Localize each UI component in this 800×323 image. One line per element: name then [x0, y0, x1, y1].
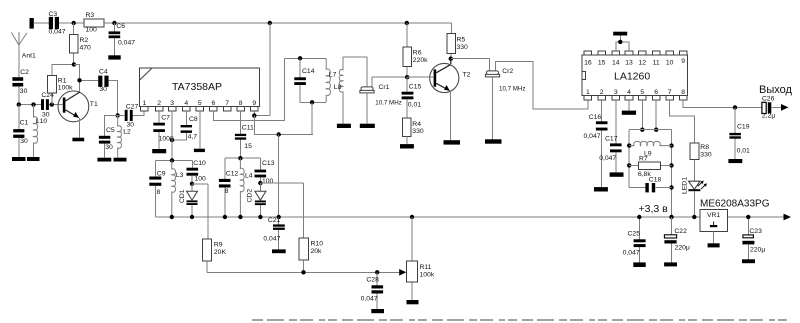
wire terminal to C3: [34, 22, 49, 24]
label Vyhod output: [759, 84, 792, 96]
arrow output: [781, 104, 789, 111]
junction dot tank bottom riser: [310, 100, 314, 104]
svg-text:30: 30: [99, 86, 107, 93]
svg-text:R11: R11: [420, 264, 432, 271]
crystal Cr2 10,7 MHz: [485, 68, 525, 139]
svg-text:16: 16: [584, 59, 592, 66]
node osc tank B top wire: [225, 157, 261, 159]
junction dot supply riser on pin9 wire: [277, 132, 281, 136]
junction dot R1/base: [50, 102, 54, 106]
node IF tank top wire: [285, 57, 327, 59]
ground of R4: [400, 144, 414, 148]
potentiometer R11 100k: [407, 217, 435, 300]
wire pin 6 to IF tank top: [213, 58, 284, 120]
svg-text:Cr1: Cr1: [379, 84, 390, 91]
svg-text:8: 8: [157, 189, 161, 196]
svg-text:C18: C18: [649, 177, 662, 184]
ground of C19: [728, 159, 742, 163]
svg-text:0,047: 0,047: [263, 235, 280, 242]
wire network right rail to +3.3V rail: [671, 130, 673, 217]
capacitor C13 100: [255, 158, 275, 185]
ground of VR1: [708, 243, 720, 247]
svg-text:5: 5: [640, 89, 644, 96]
wire pin 3 down to osc tank A: [171, 111, 173, 161]
svg-text:220μ: 220μ: [750, 247, 765, 254]
svg-text:0,047: 0,047: [623, 249, 640, 256]
capacitor C25 0,047: [623, 217, 646, 262]
wire quad network top and left rail: [629, 130, 671, 188]
svg-text:6: 6: [654, 89, 658, 96]
junction dots pins 5,6 on network top: [640, 128, 658, 132]
junction dot R6 on top rail: [405, 21, 409, 25]
ground of C5: [97, 158, 111, 162]
op-amp IC U1 TA7358AP body: [140, 68, 260, 107]
crystal Cr1 10,7 MHz: [360, 84, 402, 124]
svg-text:470: 470: [80, 45, 92, 52]
capacitor C10 100: [187, 160, 207, 184]
svg-text:30: 30: [42, 111, 50, 118]
svg-text:0,047: 0,047: [49, 29, 66, 36]
svg-text:T2: T2: [463, 72, 471, 79]
svg-text:C14: C14: [302, 68, 315, 75]
svg-text:2: 2: [600, 89, 604, 96]
svg-text:5: 5: [198, 100, 202, 107]
ground of Cr1: [360, 124, 375, 128]
resistor R4 330: [403, 118, 424, 144]
svg-text:4,7: 4,7: [188, 134, 198, 141]
ground of Cr2: [485, 139, 502, 143]
junction dot R10 bottom: [301, 270, 305, 274]
wire C26 to output arrow: [771, 106, 782, 108]
wire pins 14,13 to top ground: [616, 36, 629, 52]
svg-text:C5: C5: [106, 127, 115, 134]
label +3,3 v: [639, 203, 669, 215]
svg-text:3: 3: [614, 89, 618, 96]
ground of L8: [337, 124, 351, 128]
capacitor C5 30: [99, 115, 118, 157]
ground of C17: [610, 172, 624, 176]
inductor L8: [334, 57, 343, 124]
junction dot C11/L4 tank B: [238, 156, 242, 160]
wire C4 to C5/L2/C27 node: [109, 80, 118, 115]
cropped caption remnant: [252, 319, 788, 321]
svg-text:15: 15: [244, 143, 252, 150]
capacitor C6 0,047: [109, 23, 136, 55]
junction dot antenna/C1: [17, 102, 21, 106]
resistor R5 330: [447, 23, 468, 59]
svg-text:C19: C19: [737, 124, 750, 131]
svg-text:100: 100: [195, 175, 207, 182]
svg-text:+3,3 в: +3,3 в: [639, 203, 669, 215]
wire C2 to base node: [18, 87, 20, 105]
wire pin 9 to top rail riser: [254, 23, 269, 116]
capacitor C26 2,2u electrolytic: [762, 95, 775, 119]
svg-text:CD2: CD2: [246, 189, 253, 203]
junction dot T2 collector node: [449, 57, 453, 61]
resistor R7 6,8k: [629, 156, 671, 179]
svg-text:20k: 20k: [311, 248, 323, 255]
ground of C22: [664, 262, 677, 266]
svg-text:Ant1: Ant1: [22, 53, 36, 60]
junction dots network left rail: [627, 143, 631, 167]
ground of R11: [407, 300, 419, 304]
svg-text:R8: R8: [700, 144, 709, 151]
node osc tank A top wire: [156, 159, 193, 161]
svg-text:T1: T1: [90, 101, 98, 108]
inductor L3: [172, 160, 184, 217]
ground of C7: [152, 149, 166, 153]
resistor R8 330: [690, 143, 712, 159]
wire collector node to Cr2: [451, 59, 490, 71]
svg-text:R1: R1: [58, 77, 67, 84]
ground of pin 4: [622, 111, 636, 115]
svg-text:7: 7: [668, 89, 672, 96]
svg-text:C6: C6: [116, 23, 125, 30]
capacitor C2 30: [12, 69, 29, 95]
ground of C20: [371, 309, 384, 313]
transistor T2: [430, 59, 471, 141]
svg-text:100: 100: [262, 178, 274, 185]
junction dot L10: [31, 102, 35, 106]
svg-text:100k: 100k: [58, 85, 73, 92]
ground of pin 5: [194, 149, 205, 152]
svg-text:L10: L10: [36, 118, 48, 125]
capacitor C27 30: [118, 104, 145, 129]
svg-text:10,7 MHz: 10,7 MHz: [375, 99, 401, 106]
svg-text:TA7358AP: TA7358AP: [172, 81, 222, 93]
junction dot C10/CD1: [190, 182, 194, 186]
resistor R9 20K: [202, 239, 226, 272]
wire pin 7 to R8: [670, 100, 695, 143]
junction dot LED on rail: [692, 215, 696, 219]
ground of C21: [272, 249, 286, 253]
wiper arrow into R11: [399, 269, 406, 276]
svg-text:3: 3: [170, 100, 174, 107]
svg-text:C4: C4: [99, 68, 108, 75]
node IF tank bottom wire: [300, 101, 326, 103]
junction dot T2 base node: [405, 75, 409, 79]
svg-text:L3: L3: [176, 172, 184, 179]
svg-text:1: 1: [586, 89, 590, 96]
LA1260 bottom pin boxes and numbers 1-8: [584, 89, 687, 100]
svg-text:8: 8: [239, 100, 243, 107]
arrow end of +3.3V rail: [784, 214, 792, 221]
voltage regulator VR1: [700, 210, 728, 244]
svg-text:4: 4: [627, 89, 631, 96]
wire collector node to C4 branch: [74, 65, 98, 93]
svg-text:C11: C11: [242, 124, 254, 131]
svg-text:C9: C9: [157, 170, 166, 177]
wire tuning line R9 to R11 wiper: [207, 271, 400, 273]
transistor T1: [58, 91, 98, 138]
wire C24 to T1 base: [49, 104, 63, 106]
resistor R10 20k: [299, 238, 323, 272]
junction dot R2/top rail: [72, 21, 76, 25]
svg-text:0,01: 0,01: [408, 102, 421, 109]
svg-text:220k: 220k: [413, 57, 428, 64]
svg-text:0,047: 0,047: [599, 155, 616, 162]
junction dot C6: [112, 21, 116, 25]
capacitor C3 0,047: [49, 11, 66, 36]
ground of T1 emitter: [72, 138, 84, 142]
wire C13 node to R10: [260, 183, 303, 238]
junction dots on rail: L3, CD1, C12, L4, CD2, C21, R11: [170, 215, 415, 219]
junction dots network right rail: [669, 143, 673, 219]
svg-text:R4: R4: [412, 121, 421, 128]
svg-text:LA1260: LA1260: [614, 70, 650, 82]
resistor R1 100k: [48, 65, 74, 105]
junction dot pin3/L3 tank A: [170, 158, 174, 162]
wire base line antenna to C24: [19, 104, 41, 106]
svg-text:30: 30: [20, 88, 28, 95]
svg-text:Выход: Выход: [759, 84, 792, 96]
svg-text:C8: C8: [189, 116, 198, 123]
wire pin 9 down to IF tank bottom: [254, 116, 313, 135]
wire top rail R3 to R5 corner: [104, 22, 451, 24]
ground of L2: [114, 158, 127, 162]
svg-text:4: 4: [184, 100, 188, 107]
svg-text:330: 330: [700, 151, 712, 158]
svg-text:11: 11: [653, 59, 660, 66]
svg-text:R9: R9: [214, 242, 223, 249]
junction dot C13/CD2: [258, 181, 262, 185]
svg-text:30: 30: [105, 144, 113, 151]
svg-text:C16: C16: [589, 114, 602, 121]
svg-text:VR1: VR1: [707, 212, 720, 219]
junction dot C19 on output line: [733, 105, 737, 109]
varactor diode CD2: [246, 183, 266, 217]
svg-text:L4: L4: [245, 172, 253, 179]
capacitor C21 0,047: [263, 217, 284, 250]
ground of C25: [633, 262, 645, 267]
wire Cr2 to LA1260 pin 1: [496, 61, 588, 109]
resistor R3 100: [84, 12, 104, 34]
svg-text:0,047: 0,047: [361, 295, 378, 302]
wire base node to T2: [407, 76, 433, 78]
capacitor C7 1000 on pin 2: [153, 111, 174, 149]
capacitor C1 30: [13, 105, 28, 157]
svg-text:R5: R5: [457, 37, 466, 44]
LED LED1: [681, 159, 707, 217]
capacitor C14: [294, 58, 314, 102]
junction dot pin3/C8: [170, 138, 174, 142]
svg-text:20K: 20K: [214, 249, 227, 256]
capacitor C23 220u electrolytic: [742, 217, 765, 259]
svg-text:C12: C12: [226, 171, 239, 178]
svg-text:100: 100: [86, 27, 98, 34]
svg-text:C27: C27: [126, 104, 139, 111]
svg-text:1: 1: [143, 100, 147, 107]
antenna Ant1: [11, 32, 36, 77]
junction dot C14 top: [298, 56, 302, 60]
svg-text:330: 330: [457, 44, 469, 51]
capacitor C9 8: [149, 160, 165, 217]
junction dot C25 on rail: [637, 215, 641, 219]
junction dot pin 9: [252, 113, 256, 117]
varactor diode CD1: [179, 184, 198, 217]
svg-text:CD1: CD1: [179, 189, 186, 203]
svg-text:220μ: 220μ: [675, 244, 690, 251]
inductor L10: [34, 105, 48, 157]
svg-text:8: 8: [225, 188, 229, 195]
ground of C16: [594, 187, 608, 191]
svg-text:C3: C3: [49, 11, 58, 18]
ground of T2 emitter: [444, 140, 461, 144]
wire C10 node to R9: [192, 184, 208, 239]
capacitor C28 0,047: [361, 272, 384, 309]
svg-text:12: 12: [639, 59, 647, 66]
svg-text:30: 30: [127, 121, 135, 128]
capacitor C24 30: [41, 92, 54, 118]
junction dot R2/R1/collector node: [72, 62, 76, 66]
junction dot pin9 riser on top rail: [268, 21, 272, 25]
resistor R6 220k: [403, 23, 428, 77]
inductor L9: [629, 141, 671, 157]
svg-text:100k: 100k: [420, 272, 435, 279]
capacitor C18: [629, 177, 671, 193]
capacitor C17 0,047 on pin 3: [599, 100, 621, 172]
wire pin 5 to quad network: [641, 100, 643, 130]
ground of C1: [12, 157, 26, 161]
junction dot top ground: [618, 40, 622, 44]
svg-text:10,7 MHz: 10,7 MHz: [499, 86, 525, 93]
svg-text:9: 9: [681, 58, 685, 65]
svg-text:330: 330: [412, 128, 424, 135]
svg-text:13: 13: [625, 59, 633, 66]
wire pin 5 to ground: [199, 111, 201, 149]
wire pin 4 to ground: [628, 100, 630, 110]
svg-text:R6: R6: [413, 50, 422, 57]
svg-text:0,047: 0,047: [118, 40, 135, 47]
wire pin 6 to quad network: [655, 100, 657, 130]
svg-text:2: 2: [157, 100, 161, 107]
svg-text:10: 10: [666, 59, 674, 66]
wire top rail C3 to R3: [59, 22, 84, 24]
svg-text:C1: C1: [20, 119, 29, 126]
svg-text:6: 6: [212, 100, 216, 107]
svg-text:L7: L7: [329, 71, 337, 78]
ground above pins 14,13: [613, 32, 627, 36]
wire L8 top to Cr1: [343, 57, 367, 87]
svg-text:R3: R3: [86, 12, 95, 19]
input terminal bar: [30, 18, 34, 29]
svg-text:R10: R10: [311, 241, 324, 248]
junction dot C23 on rail: [746, 215, 750, 219]
capacitor C11 15 on pin 8: [235, 111, 254, 158]
capacitor C22 220u electrolytic: [664, 217, 690, 262]
svg-text:C21: C21: [268, 217, 281, 224]
TA7358AP pin boxes and pin numbers 1-9: [141, 100, 259, 111]
svg-text:8: 8: [681, 89, 685, 96]
capacitor C4 30: [98, 68, 108, 92]
svg-text:15: 15: [598, 59, 606, 66]
wire Cr1 to T2 base node: [372, 77, 407, 87]
svg-text:0,047: 0,047: [584, 133, 601, 140]
svg-text:30: 30: [20, 138, 28, 145]
svg-text:C2: C2: [20, 69, 29, 76]
svg-text:ME6208A33PG: ME6208A33PG: [700, 198, 770, 209]
inductor L4: [240, 158, 252, 217]
LA1260 top pin boxes and numbers 16-9: [584, 51, 687, 66]
svg-text:C22: C22: [674, 228, 687, 235]
svg-text:C7: C7: [161, 115, 170, 122]
inductor L2: [118, 115, 131, 157]
capacitor C15 0,01: [402, 77, 422, 118]
wire pin 8 to output: [683, 100, 762, 107]
ground of C23: [742, 259, 755, 263]
wire tank bottom to pin9 line: [311, 102, 313, 134]
svg-text:R7: R7: [639, 156, 648, 163]
wire +3,3V rail: [156, 216, 786, 218]
svg-text:C28: C28: [366, 277, 379, 284]
junction dot C28: [375, 270, 379, 274]
svg-text:Cr2: Cr2: [502, 68, 513, 75]
wire riser pin9 node to +3.3V rail: [278, 135, 280, 218]
svg-text:7: 7: [225, 100, 229, 107]
ground of L10: [27, 157, 40, 161]
inductor L7: [326, 58, 336, 102]
svg-text:14: 14: [612, 59, 620, 66]
junction dot C5/L2/C27: [116, 113, 120, 117]
IC U2 LA1260 body: [582, 55, 688, 96]
svg-text:C17: C17: [605, 136, 618, 143]
svg-text:LED1: LED1: [681, 177, 688, 194]
svg-text:L8: L8: [334, 84, 342, 91]
svg-text:C23: C23: [749, 228, 762, 235]
svg-text:2,2μ: 2,2μ: [762, 113, 775, 120]
svg-text:0,01: 0,01: [737, 148, 750, 155]
svg-text:C26: C26: [762, 95, 775, 102]
svg-text:C10: C10: [193, 160, 206, 167]
svg-text:C25: C25: [628, 230, 641, 237]
label ME6208A33PG: [700, 198, 770, 209]
capacitor C8 4,7 on pin 4: [172, 111, 198, 141]
svg-text:L2: L2: [123, 129, 131, 136]
ground of C6: [108, 55, 120, 59]
capacitor C16 0,047 on pin 2: [584, 100, 608, 187]
svg-text:9: 9: [252, 100, 256, 107]
svg-text:C15: C15: [409, 83, 422, 90]
capacitor C19 0,01: [729, 107, 750, 159]
junction dot collector/C4: [77, 78, 81, 82]
resistor R2 470: [70, 23, 91, 65]
svg-text:C13: C13: [262, 160, 275, 167]
capacitor C12 8: [219, 158, 239, 217]
svg-text:R2: R2: [80, 37, 89, 44]
